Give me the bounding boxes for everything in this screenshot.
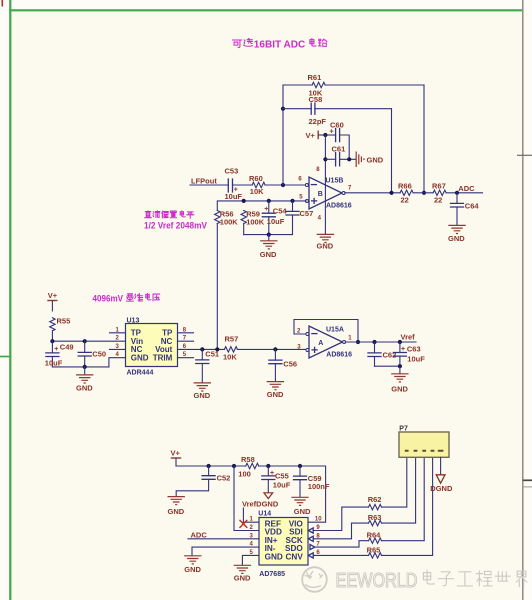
svg-text:C56: C56 <box>283 359 297 368</box>
svg-text:R55: R55 <box>57 316 71 325</box>
junction C59 <box>298 464 302 468</box>
resistor R66 <box>398 181 413 204</box>
svg-text:R63: R63 <box>368 513 382 522</box>
svg-text:AD7685: AD7685 <box>259 571 285 578</box>
junction C58 left <box>281 107 285 111</box>
pin arrow SDI <box>308 528 313 533</box>
sheet edge tick lower <box>523 479 532 481</box>
capacitor C51 <box>196 349 219 382</box>
wire C64 to ground <box>456 207 458 225</box>
wire R61 to right vertical <box>325 84 424 86</box>
wire C58 left segment <box>283 108 311 110</box>
svg-text:V+: V+ <box>48 291 58 300</box>
svg-text:TRIM: TRIM <box>153 354 173 363</box>
wire bias bottom rail <box>244 234 293 236</box>
op-amp U15A <box>309 326 352 358</box>
border frame green horizontal line <box>9 9 523 11</box>
wire REF pin stub <box>243 521 259 523</box>
svg-text:C51: C51 <box>205 350 219 359</box>
capacitor C57 <box>286 201 313 235</box>
svg-text:R64: R64 <box>367 530 382 539</box>
junction C57 top <box>290 199 294 203</box>
capacitor C54 <box>262 201 287 235</box>
resistor R55 <box>50 316 71 331</box>
svg-text:Vref: Vref <box>401 332 416 341</box>
svg-text:R60: R60 <box>249 174 263 183</box>
capacitor C62 <box>368 342 396 366</box>
svg-text:10uF: 10uF <box>273 481 291 490</box>
wire VDD branch <box>234 466 259 531</box>
svg-text:+: + <box>401 346 405 353</box>
svg-text:GND: GND <box>260 250 277 259</box>
wire V+ rail to R58 <box>176 465 246 467</box>
U13 pin 3 stub <box>110 348 126 350</box>
wire CNV to R65 <box>313 554 368 556</box>
svg-text:C57: C57 <box>300 209 314 218</box>
wire LFPout to C53 <box>190 184 228 186</box>
svg-text:AD8616: AD8616 <box>326 203 352 210</box>
capacitor C63 <box>393 342 425 366</box>
wire C53 to R60 <box>233 184 253 186</box>
svg-text:U15B: U15B <box>326 177 344 184</box>
sheet edge tick upper <box>517 154 532 156</box>
junction feedback to output <box>356 340 360 344</box>
note DC bias level <box>145 211 194 218</box>
svg-text:R67: R67 <box>432 181 446 190</box>
svg-text:GND: GND <box>391 384 408 393</box>
pin dot U15B out <box>342 192 345 195</box>
resistor R64 <box>367 530 382 543</box>
power port V+ (reference) <box>47 291 58 311</box>
IC U14 AD7685 <box>258 511 308 578</box>
wire C64 top stub <box>456 193 458 204</box>
svg-text:GND: GND <box>131 354 149 363</box>
wire R57 to U15A pin3 <box>237 348 306 350</box>
svg-text:10uF: 10uF <box>45 358 63 367</box>
resistor R56 <box>215 210 239 227</box>
wire R60 to U15B pin6 <box>265 184 306 186</box>
wire R66 to R67 <box>413 192 433 194</box>
junction at R60 output <box>281 183 285 187</box>
ground (bias divider) <box>260 241 278 259</box>
capacitor C56 <box>269 349 297 381</box>
resistor R57 <box>223 335 238 362</box>
svg-text:R65: R65 <box>367 546 381 555</box>
svg-text:R58: R58 <box>241 455 255 464</box>
title text <box>232 38 326 47</box>
junction C62 top <box>372 340 376 344</box>
ground (C59) <box>291 497 311 516</box>
power port V+ (ADC supply) <box>171 449 182 467</box>
svg-text:10K: 10K <box>250 187 264 196</box>
junction gnd rail <box>83 365 87 369</box>
junction C50 top <box>83 339 87 343</box>
wire bias rail to U15B pin5 <box>217 201 306 210</box>
wire R67 to ADC port <box>446 192 482 194</box>
svg-text:C58: C58 <box>309 95 323 104</box>
wire R58 to VIO <box>259 466 326 522</box>
svg-text:U15A: U15A <box>326 326 344 333</box>
svg-text:C61: C61 <box>332 144 346 153</box>
svg-text:10uF: 10uF <box>267 217 285 226</box>
wire C58 right vertical down <box>391 109 393 193</box>
wire R61 right vertical down <box>423 85 425 193</box>
svg-text:GND: GND <box>267 390 284 399</box>
svg-text:GND: GND <box>168 507 185 516</box>
power port V+ (U15B supply) <box>306 131 326 140</box>
svg-text:+: + <box>270 470 274 477</box>
ground (C52) <box>168 497 185 516</box>
svg-text:22: 22 <box>434 196 442 205</box>
pin dot U15B in+ <box>305 200 308 203</box>
pin arrow CNV <box>308 553 313 558</box>
border tick left <box>0 356 10 358</box>
svg-text:C52: C52 <box>217 473 231 482</box>
wire R56 bottom long vertical to Vref rail <box>216 224 218 350</box>
no-ERC marker on REF <box>240 520 248 528</box>
capacitor C64 <box>451 201 480 210</box>
svg-text:VrefDGND: VrefDGND <box>242 500 279 509</box>
junction C58 branch on output <box>389 191 393 195</box>
svg-text:GND: GND <box>194 391 211 400</box>
svg-text:10: 10 <box>315 517 322 523</box>
svg-text:+: + <box>264 206 268 213</box>
resistor R67 <box>432 181 446 204</box>
resistor R58 <box>238 455 258 478</box>
capacitor C49 <box>45 341 74 367</box>
svg-text:A: A <box>318 340 323 347</box>
svg-text:10K: 10K <box>223 353 237 362</box>
pin dot U15A out <box>343 341 346 344</box>
wire U13 pin4 L <box>109 358 126 367</box>
ground (U15B pin4) <box>317 234 335 250</box>
wire U15A feedback loop <box>294 320 358 343</box>
wire V+ down to opamp pins 8/4 <box>324 135 326 234</box>
svg-text:GND: GND <box>448 234 465 243</box>
wire C62/C63 bottom rail <box>375 365 400 367</box>
pin dot U15B in- <box>305 184 308 187</box>
border frame green vertical line <box>9 0 11 600</box>
ground (rotated, U15B decoupling) <box>356 152 384 168</box>
svg-text:100: 100 <box>238 469 251 478</box>
wire SDO to R64 <box>315 541 369 547</box>
svg-text:+: + <box>54 346 58 353</box>
svg-text:R66: R66 <box>398 181 412 190</box>
wire GND pin to gnd <box>242 555 259 565</box>
sheet edge tick lower faint <box>523 486 532 488</box>
wire reference bottom rail <box>52 366 109 368</box>
svg-text:V+: V+ <box>306 131 316 140</box>
svg-text:22: 22 <box>401 196 409 205</box>
svg-text:GND: GND <box>294 507 311 516</box>
wire R55 to rail <box>51 331 53 341</box>
IC U13 ADR444 <box>126 318 178 377</box>
wire R64 to P7 <box>382 457 425 540</box>
svg-text:C53: C53 <box>225 167 239 176</box>
svg-text:R57: R57 <box>225 335 239 344</box>
junction C60/C61 right <box>347 157 351 161</box>
svg-text:R61: R61 <box>308 73 322 82</box>
svg-text:GND: GND <box>184 565 201 574</box>
capacitor C55 <box>262 466 291 493</box>
sheet edge gray vertical line <box>522 0 524 600</box>
wire R61 top <box>283 84 312 86</box>
junction C54 top <box>267 199 271 203</box>
svg-text:ADR444: ADR444 <box>127 369 154 376</box>
capacitor C50 <box>78 341 106 367</box>
red tick top-left <box>1 0 3 7</box>
ground (U14 GND) <box>234 565 251 582</box>
svg-text:22pF: 22pF <box>309 117 327 126</box>
wire C50 gnd stub <box>84 367 86 375</box>
svg-text:10uF: 10uF <box>407 355 425 364</box>
wire R65 to P7 <box>382 457 433 555</box>
capacitor C53 <box>225 167 243 201</box>
resistor R65 <box>367 546 382 559</box>
pin dot U15A in- <box>306 333 309 336</box>
resistor R62 <box>368 495 382 510</box>
svg-text:C64: C64 <box>465 201 480 210</box>
wire Vref label to REF pin <box>242 508 244 522</box>
svg-text:C49: C49 <box>60 342 74 351</box>
power port DGND (P7) <box>430 475 453 493</box>
junction bias divider branch <box>215 347 219 351</box>
wire C61 right <box>340 158 356 160</box>
svg-text:GND: GND <box>76 383 93 392</box>
svg-text:ADC: ADC <box>458 184 475 193</box>
resistor R59 <box>241 210 265 227</box>
U13 pin 7 stub <box>178 340 194 342</box>
svg-text:U14: U14 <box>258 511 271 518</box>
wire P7 pin to DGND <box>440 457 442 474</box>
svg-text:+: + <box>330 129 334 136</box>
junction C56 <box>273 347 277 351</box>
svg-text:P7: P7 <box>399 426 408 433</box>
wire gnd stub <box>399 366 401 373</box>
svg-text:C54: C54 <box>273 206 288 215</box>
resistor R63 <box>368 513 382 526</box>
wire SDI to R62 <box>313 507 368 530</box>
wire V+ to C60 <box>325 134 335 136</box>
svg-text:AD8616: AD8616 <box>326 351 352 358</box>
wire R59 bottom <box>243 224 245 235</box>
wire C60 right <box>340 135 350 159</box>
svg-text:GND: GND <box>367 155 384 164</box>
wire IN- to gnd <box>192 547 259 556</box>
svg-text:100K: 100K <box>220 218 239 227</box>
svg-text:C50: C50 <box>92 349 106 358</box>
junction C52 <box>207 464 211 468</box>
wire Vin rail <box>52 340 125 342</box>
capacitor C52 <box>176 466 230 496</box>
junction gnd <box>398 364 402 368</box>
svg-text:DGND: DGND <box>430 484 453 493</box>
capacitor C60 <box>330 120 344 141</box>
junction bias gnd <box>267 233 271 237</box>
wire SCK to R63 <box>313 523 368 539</box>
resistor R60 <box>249 174 265 196</box>
svg-text:CNV: CNV <box>286 553 304 562</box>
svg-text:GND: GND <box>317 242 334 251</box>
junction C61 left <box>323 157 327 161</box>
junction R59 top <box>242 199 246 203</box>
junction C55 <box>266 464 270 468</box>
wire R63 to P7 <box>382 457 416 523</box>
ground (C51) <box>194 383 212 400</box>
svg-text:B: B <box>318 191 323 198</box>
svg-text:C63: C63 <box>407 345 421 354</box>
power port DGND (C55) <box>264 493 273 499</box>
watermark logo <box>302 567 327 592</box>
capacitor C59 <box>294 466 330 497</box>
wire R62 to P7 <box>382 457 407 507</box>
U13 pin 5 stub <box>178 357 194 359</box>
svg-text:ADC: ADC <box>191 530 208 539</box>
junction V+ node <box>323 133 327 137</box>
pin arrow SDO <box>310 545 315 550</box>
junction VDD branch <box>232 464 236 468</box>
svg-text:R62: R62 <box>368 495 382 504</box>
svg-text:GND: GND <box>265 553 283 562</box>
pin arrow SCK <box>308 536 313 541</box>
svg-text:C55: C55 <box>275 471 289 480</box>
svg-text:EEWORLD: EEWORLD <box>336 570 418 592</box>
op-amp U15B <box>309 167 352 222</box>
svg-text:4096mV: 4096mV <box>93 294 124 304</box>
wire feedback left vertical <box>282 85 284 185</box>
svg-text:1/2 Vref 2048mV: 1/2 Vref 2048mV <box>144 221 207 231</box>
capacitor C58 <box>309 95 327 126</box>
svg-text:16BIT ADC: 16BIT ADC <box>254 39 306 51</box>
capacitor C61 <box>332 144 346 166</box>
wire C61 left <box>325 158 335 160</box>
connector P7 <box>399 426 449 458</box>
ground (C56) <box>267 382 284 399</box>
wire U15A output to Vref <box>345 341 416 343</box>
wire to ground stub <box>268 235 270 241</box>
ground (C64) <box>448 225 466 242</box>
ground (Vref caps) <box>391 374 408 394</box>
svg-text:GND: GND <box>234 573 251 582</box>
svg-text:V+: V+ <box>171 449 181 458</box>
wire Vout rail to R57 <box>178 348 225 350</box>
svg-text:100nF: 100nF <box>308 482 330 491</box>
svg-text:U13: U13 <box>127 318 140 325</box>
junction R61 branch on output <box>422 191 426 195</box>
svg-text:+: + <box>234 187 238 194</box>
svg-text:LFPout: LFPout <box>191 176 217 185</box>
U13 pin 8 stub <box>178 332 194 334</box>
ground (IN-) <box>184 556 201 574</box>
wire C58 right segment <box>315 108 392 110</box>
pin dot U15A in+ <box>306 349 309 352</box>
ground (reference input) <box>76 375 93 392</box>
junction C63 top <box>398 340 402 344</box>
resistor R61 <box>308 73 326 97</box>
junction C64 tap <box>455 191 459 195</box>
wire U15B output to ADC net <box>345 192 400 194</box>
junction C49 top <box>50 339 54 343</box>
svg-text:100K: 100K <box>246 218 265 227</box>
wire ADC to IN+ <box>188 538 259 540</box>
junction C51 <box>200 347 204 351</box>
U13 pin 1 stub <box>110 332 126 334</box>
